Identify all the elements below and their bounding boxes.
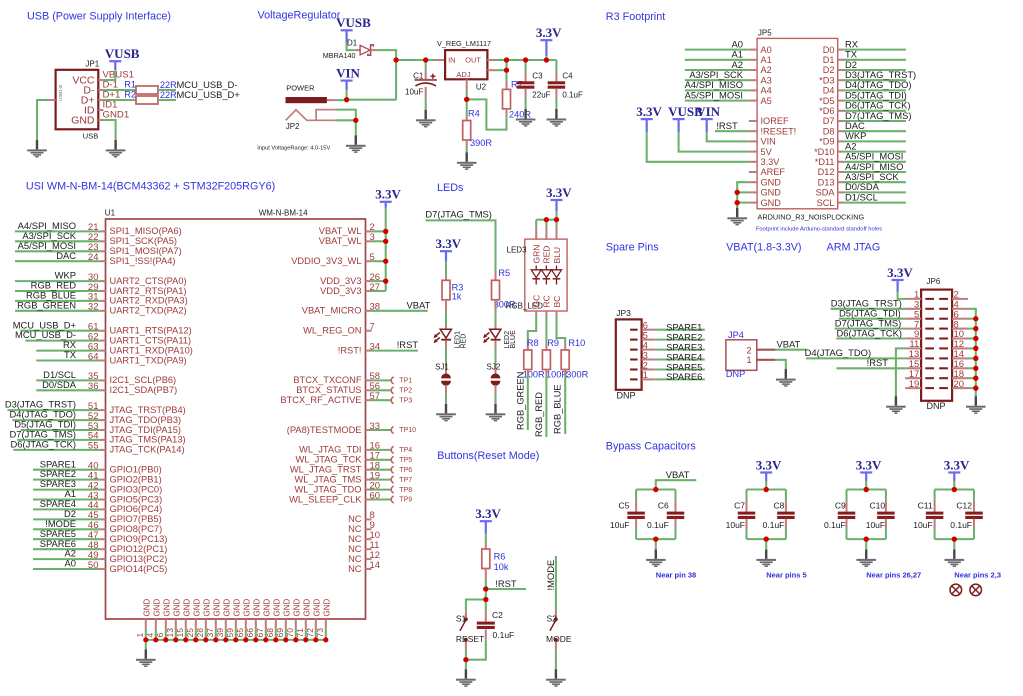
svg-text:A1: A1 bbox=[761, 55, 772, 65]
svg-text:73: 73 bbox=[315, 628, 325, 638]
svg-text:WL_JTAG_TCK: WL_JTAG_TCK bbox=[296, 455, 363, 465]
svg-text:GND: GND bbox=[242, 599, 251, 617]
wire bus to ground bbox=[145, 640, 147, 649]
wire rail to U2 IN bbox=[426, 59, 445, 61]
svg-text:TP5: TP5 bbox=[399, 457, 412, 464]
U1 pin 63 UART1_RXD(PA10) net RX bbox=[36, 339, 193, 355]
JP6 right ground rail bbox=[968, 309, 976, 396]
section title VoltageRegulator bbox=[258, 9, 341, 21]
capacitor C7 bbox=[726, 490, 756, 540]
value 300R of R10 bbox=[566, 370, 588, 380]
junction dots overlay bbox=[143, 57, 978, 662]
wire 3.3V to rail C11 bbox=[953, 481, 955, 490]
wire and net label D1/SCL from JP5 bbox=[843, 191, 906, 202]
svg-text:10uF: 10uF bbox=[405, 88, 423, 97]
U1 pin 5 VDDIO_3V3_WL bbox=[291, 252, 388, 266]
note input voltage range bbox=[257, 146, 330, 152]
value 240R bbox=[509, 110, 531, 120]
section title USI module bbox=[26, 181, 275, 193]
connector JP3 bbox=[616, 308, 642, 401]
U1 pin 34 !RST! bbox=[338, 339, 419, 355]
svg-text:ARM JTAG: ARM JTAG bbox=[827, 242, 881, 254]
svg-text:28: 28 bbox=[195, 628, 205, 638]
svg-text:C2: C2 bbox=[492, 610, 503, 620]
wire and net label A2 to JP5 bbox=[685, 59, 749, 70]
wire 3.3V to JP6 pin1 bbox=[898, 292, 906, 299]
wire 3.3V to R3 bbox=[445, 262, 447, 281]
svg-text:BC: BC bbox=[552, 296, 562, 308]
U1 pin 40 GPIO1(PB0) net SPARE1 bbox=[33, 458, 162, 474]
svg-text:UART1_TXD(PA9): UART1_TXD(PA9) bbox=[110, 355, 187, 365]
svg-text:59: 59 bbox=[225, 628, 235, 638]
power flag VUSB bbox=[105, 46, 140, 70]
svg-text:BTCX_STATUS: BTCX_STATUS bbox=[296, 385, 361, 395]
wire LED2 to SJ2 bbox=[494, 340, 496, 374]
svg-text:VIN: VIN bbox=[696, 104, 720, 119]
wire VIN down bbox=[346, 90, 348, 100]
wire VIN to JP5 bbox=[707, 132, 749, 141]
wire and net label SPARE6 bbox=[655, 371, 705, 382]
svg-text:MODE: MODE bbox=[546, 634, 572, 644]
wire U2 OUT2 bbox=[487, 69, 506, 71]
U1 pin 31 UART2_RXD(PA3) net RGB_BLUE bbox=[15, 290, 188, 306]
svg-text:Bypass Capacitors: Bypass Capacitors bbox=[606, 440, 697, 452]
LED3 top pin wires bbox=[536, 220, 556, 239]
svg-text:R5: R5 bbox=[498, 268, 510, 278]
svg-text:D1/SCL: D1/SCL bbox=[845, 191, 878, 202]
wire S2 to ground bbox=[555, 642, 557, 670]
svg-text:!RST: !RST bbox=[495, 578, 517, 589]
wire and net label D6(JTAG_TCK) from JP5 bbox=[843, 100, 910, 111]
JP2 pin stub to VIN rail bbox=[327, 99, 347, 101]
JP3 pins bbox=[630, 321, 655, 382]
svg-text:C12: C12 bbox=[956, 501, 972, 511]
value 22R of R2 bbox=[160, 90, 177, 100]
wire C2 branch bbox=[485, 600, 487, 622]
svg-text:GPIO3(PC0): GPIO3(PC0) bbox=[110, 484, 163, 494]
U1 pin 61 UART1_RTS(PA12) net MCU_USB_D+ bbox=[13, 319, 192, 335]
JP5 right pin names bbox=[814, 45, 835, 208]
svg-text:!RST: !RST bbox=[867, 357, 889, 368]
svg-text:GND: GND bbox=[152, 599, 161, 617]
wire and net label TX from JP5 bbox=[843, 49, 906, 60]
U1 GND pins bbox=[135, 599, 331, 640]
svg-text:R6: R6 bbox=[494, 552, 506, 562]
wire R6 to RST node bbox=[485, 569, 487, 590]
svg-text:DNP: DNP bbox=[927, 401, 946, 411]
svg-text:GPIO14(PC5): GPIO14(PC5) bbox=[110, 564, 168, 574]
svg-text:*D10: *D10 bbox=[814, 147, 834, 157]
svg-text:*D11: *D11 bbox=[815, 157, 835, 167]
svg-text:UART2_CTS(PA0): UART2_CTS(PA0) bbox=[110, 276, 187, 286]
U1 pin 14 NC bbox=[348, 560, 380, 574]
svg-text:TP3: TP3 bbox=[399, 397, 412, 404]
svg-text:GND: GND bbox=[162, 599, 171, 617]
svg-text:WL_JTAG_TDI: WL_JTAG_TDI bbox=[299, 445, 361, 455]
value 22R of R1 bbox=[160, 80, 177, 90]
svg-text:USB (Power Supply Interface): USB (Power Supply Interface) bbox=[27, 11, 171, 23]
svg-text:NC: NC bbox=[348, 534, 362, 544]
svg-text:1: 1 bbox=[135, 633, 145, 638]
svg-text:64: 64 bbox=[88, 351, 99, 362]
U1 pin 23 SPI1_MOSI(PA7) net A5/SPI_MOSI bbox=[15, 240, 182, 256]
wire and net label D4(JTAG_TDO) JP6 bbox=[805, 347, 906, 358]
svg-text:D1: D1 bbox=[823, 55, 835, 65]
wire and net label A5/SPI_MOSI to JP5 bbox=[685, 89, 749, 100]
svg-text:WL_JTAG_TDO: WL_JTAG_TDO bbox=[295, 484, 362, 494]
JP5 left pin names bbox=[761, 45, 797, 208]
wire RST to branch bbox=[485, 589, 487, 600]
svg-text:70: 70 bbox=[285, 628, 295, 638]
U1 pin 49 GPIO13(PC2) net A2 bbox=[33, 548, 167, 564]
svg-text:72: 72 bbox=[305, 628, 315, 638]
wire and net label VBAT JP4 bbox=[775, 339, 806, 350]
svg-text:100R: 100R bbox=[523, 370, 545, 380]
wire and net label A3/SPI_SCK to JP5 bbox=[685, 69, 749, 80]
bypass bottom rail C11 bbox=[935, 538, 974, 540]
svg-text:JTAG_TMS(PA13): JTAG_TMS(PA13) bbox=[110, 435, 186, 445]
svg-text:Spare Pins: Spare Pins bbox=[606, 242, 659, 254]
svg-text:GND1: GND1 bbox=[103, 110, 130, 121]
capacitor C1 bbox=[405, 60, 437, 97]
U1 pin 47 GPIO9(PC13) net SPARE5 bbox=[33, 528, 167, 544]
svg-text:WM-N-BM-14: WM-N-BM-14 bbox=[259, 209, 308, 218]
capacitor C12 bbox=[950, 490, 983, 540]
svg-text:!RST: !RST bbox=[716, 120, 738, 131]
jumper JP2 bbox=[286, 110, 336, 131]
capacitor C8 bbox=[763, 490, 795, 540]
svg-text:D1: D1 bbox=[347, 38, 358, 47]
svg-text:SPI1_SCK(PA5): SPI1_SCK(PA5) bbox=[110, 236, 178, 246]
ground S2 bbox=[546, 669, 566, 687]
wire R7 to ADJ loop bbox=[467, 99, 507, 129]
junction JP5 GND2 bbox=[735, 190, 740, 195]
svg-text:GND: GND bbox=[761, 188, 782, 198]
net label MCU_USB_D+ bbox=[177, 89, 241, 100]
solder jumper SJ1 bbox=[435, 363, 451, 386]
svg-text:VBAT_MICRO: VBAT_MICRO bbox=[302, 306, 362, 316]
wire C2 to gnd node bbox=[466, 630, 486, 660]
svg-text:UART2_TXD(PA2): UART2_TXD(PA2) bbox=[110, 306, 187, 316]
wire JP1 D+ to R2 bbox=[103, 99, 136, 101]
value 390R bbox=[470, 138, 492, 148]
svg-text:14: 14 bbox=[370, 560, 381, 571]
JP1 pin label D-1 bbox=[103, 80, 118, 91]
svg-text:VIN: VIN bbox=[336, 65, 360, 80]
U1 pin 56 BTCX_STATUS bbox=[296, 381, 412, 395]
svg-text:SJ2: SJ2 bbox=[487, 363, 501, 372]
svg-text:DAC: DAC bbox=[56, 250, 76, 261]
svg-text:VIN: VIN bbox=[761, 137, 776, 147]
svg-text:NC: NC bbox=[348, 544, 362, 554]
svg-text:C4: C4 bbox=[562, 71, 573, 80]
wire 3.3V to JP5 bbox=[647, 132, 749, 162]
U1 pin 18 WL_JTAG_TRST bbox=[290, 461, 412, 475]
junction at C1 bbox=[423, 57, 428, 62]
ground bypass C7 bbox=[756, 549, 776, 567]
wire and net label DAC from JP5 bbox=[843, 120, 906, 131]
svg-text:24: 24 bbox=[88, 252, 99, 263]
U1 pin 9 NC bbox=[348, 520, 375, 534]
svg-text:10uF: 10uF bbox=[866, 520, 885, 530]
bypass top rail C11 bbox=[935, 488, 974, 490]
JP6 right ground taps bbox=[968, 316, 978, 391]
svg-text:JP5: JP5 bbox=[758, 29, 772, 38]
svg-text:GND: GND bbox=[322, 599, 331, 617]
junction top C9 bbox=[864, 487, 869, 492]
svg-text:GPIO7(PB5): GPIO7(PB5) bbox=[110, 514, 162, 524]
svg-text:GND: GND bbox=[272, 599, 281, 617]
svg-text:A0: A0 bbox=[761, 45, 772, 55]
JP5 note bbox=[756, 226, 882, 232]
wire 3.3V to rail C7 bbox=[765, 481, 767, 490]
svg-text:VUSB: VUSB bbox=[105, 46, 140, 61]
svg-text:37: 37 bbox=[205, 628, 215, 638]
net label !RST to JP5 bbox=[715, 120, 749, 131]
wire and net label D6(JTAG_TCK) JP6 bbox=[836, 327, 905, 338]
wire JP6 pin11 to ground bbox=[896, 348, 905, 396]
wire C4 to ground bbox=[555, 88, 557, 109]
svg-text:GPIO13(PC2): GPIO13(PC2) bbox=[110, 554, 168, 564]
connector POWER JP2 bar bbox=[286, 83, 327, 103]
svg-text:SPI1_MOSI(PA7): SPI1_MOSI(PA7) bbox=[110, 246, 182, 256]
svg-text:JP1: JP1 bbox=[85, 60, 99, 69]
svg-text:32: 32 bbox=[88, 302, 99, 313]
svg-text:NC: NC bbox=[348, 524, 362, 534]
svg-text:UART1_RXD(PA10): UART1_RXD(PA10) bbox=[110, 345, 193, 355]
wire R3 to LED1 bbox=[445, 300, 447, 330]
capacitor C10 bbox=[866, 490, 895, 540]
junction JP2 gnd bbox=[353, 118, 358, 123]
svg-text:GND: GND bbox=[212, 599, 221, 617]
svg-text:65: 65 bbox=[235, 628, 245, 638]
ground C3 bbox=[516, 109, 536, 127]
wire D1 cathode to rail bbox=[370, 50, 396, 100]
junction 3V3 rail bbox=[544, 57, 549, 62]
wire LED1 to SJ1 bbox=[445, 340, 447, 374]
resistor R7 bbox=[503, 79, 523, 109]
value 100R of R9 bbox=[546, 370, 568, 380]
wire LED3 RC to R9 bbox=[545, 311, 547, 350]
svg-text:50: 50 bbox=[88, 560, 99, 571]
wire LED3 top rail bbox=[536, 219, 556, 221]
section title ARM JTAG bbox=[827, 242, 881, 254]
svg-text:22uF: 22uF bbox=[532, 90, 550, 99]
svg-text:C11: C11 bbox=[918, 501, 933, 511]
connector JP6 bbox=[921, 277, 952, 411]
ic U1 outline bbox=[105, 209, 366, 620]
wire JP1 GND1 to ground bbox=[103, 120, 115, 140]
svg-text:GPIO8(PC7): GPIO8(PC7) bbox=[110, 524, 163, 534]
U1 pin 43 GPIO5(PC3) net A1 bbox=[33, 488, 162, 504]
svg-text:D4: D4 bbox=[823, 86, 835, 96]
svg-text:BTCX_RF_ACTIVE: BTCX_RF_ACTIVE bbox=[280, 395, 361, 405]
resistor R4 bbox=[463, 108, 480, 140]
JP1 pin names bbox=[71, 74, 95, 126]
wire and net label A1 to JP5 bbox=[685, 49, 749, 60]
svg-text:LEDs: LEDs bbox=[437, 182, 464, 194]
power flag 3.3V U1 bbox=[375, 187, 401, 208]
wire SJ2 to ground bbox=[494, 385, 496, 404]
svg-text:TP4: TP4 bbox=[399, 447, 412, 454]
svg-text:D6(JTAG_TCK): D6(JTAG_TCK) bbox=[837, 327, 902, 338]
svg-text:TP7: TP7 bbox=[399, 477, 412, 484]
junction bottom C5 bbox=[653, 537, 658, 542]
section title R3 Footprint bbox=[606, 11, 665, 23]
JP4 pin1 stub bbox=[757, 359, 776, 361]
svg-text:JTAG_TDI(PA15): JTAG_TDI(PA15) bbox=[110, 425, 181, 435]
svg-text:UART2_RTS(PA1): UART2_RTS(PA1) bbox=[110, 286, 187, 296]
U1 pin 52 JTAG_TDO(PB3) net D4(JTAG_TDO) bbox=[10, 409, 182, 425]
svg-text:C9: C9 bbox=[835, 501, 846, 511]
svg-text:USB1-B: USB1-B bbox=[58, 85, 63, 101]
capacitor C5 bbox=[610, 490, 645, 540]
section title Buttons bbox=[437, 450, 539, 462]
svg-text:(PA8)TESTMODE: (PA8)TESTMODE bbox=[287, 425, 362, 435]
svg-text:0.1uF: 0.1uF bbox=[493, 630, 515, 640]
wire VUSB to JP1 VCC bbox=[103, 70, 115, 80]
LED3 inside labels bbox=[532, 245, 562, 308]
svg-text:SDA: SDA bbox=[816, 188, 836, 198]
wire rail corner to C4 bbox=[555, 60, 557, 81]
net label D7(JTAG_TMS) to R5 bbox=[425, 209, 495, 271]
svg-text:ADJ: ADJ bbox=[456, 70, 470, 79]
svg-text:MBRA140: MBRA140 bbox=[323, 51, 356, 60]
rgb led LED3 outline bbox=[506, 239, 567, 311]
JP1 pin label ID1 bbox=[103, 100, 118, 111]
U1 pin 19 WL_JTAG_TMS bbox=[295, 470, 413, 484]
junction C3 rail bbox=[523, 57, 528, 62]
ground JP6 right bbox=[966, 396, 986, 414]
svg-text:MCU_USB_D+: MCU_USB_D+ bbox=[177, 89, 241, 100]
ground SJ1 bbox=[436, 404, 456, 422]
junction top C5 bbox=[653, 487, 658, 492]
wire 3.3V to LED3 rail bbox=[555, 211, 557, 220]
svg-text:C5: C5 bbox=[619, 501, 630, 511]
wire R1 to MCU_USB_D- bbox=[158, 89, 176, 91]
junction RST node bbox=[483, 586, 488, 591]
U1 pin 12 NC bbox=[348, 550, 380, 564]
svg-text:3.3V: 3.3V bbox=[856, 457, 882, 472]
svg-text:300R: 300R bbox=[566, 370, 588, 380]
wire and net label SPARE4 bbox=[655, 351, 705, 362]
junction bottom C11 bbox=[952, 537, 957, 542]
svg-text:UART1_CTS(PA11): UART1_CTS(PA11) bbox=[110, 335, 192, 345]
svg-text:D12: D12 bbox=[818, 167, 835, 177]
U1 pin 21 SPI1_MISO(PA6) net A4/SPI_MISO bbox=[15, 220, 182, 236]
U1 pin 10 NC bbox=[348, 530, 380, 544]
U1 ground bus bbox=[146, 639, 326, 641]
wire and net label A2 from JP5 bbox=[843, 140, 906, 151]
resistor R1 bbox=[124, 80, 158, 95]
svg-text:C3: C3 bbox=[532, 71, 543, 80]
wire and net label SPARE1 bbox=[655, 322, 705, 333]
svg-text:4: 4 bbox=[145, 633, 155, 638]
switch S1 bbox=[456, 614, 484, 645]
junction S1 gnd node bbox=[463, 657, 468, 662]
svg-text:JP6: JP6 bbox=[927, 277, 941, 286]
svg-text:BLUE: BLUE bbox=[510, 330, 517, 349]
svg-text:GC: GC bbox=[532, 295, 542, 308]
power flag VIN bbox=[336, 65, 360, 90]
svg-text:VBAT: VBAT bbox=[777, 339, 801, 350]
svg-text:GND: GND bbox=[172, 599, 181, 617]
svg-text:390R: 390R bbox=[470, 138, 492, 148]
resistor R8 bbox=[524, 338, 539, 370]
svg-text:OUT: OUT bbox=[465, 56, 481, 65]
junction top C11 bbox=[952, 487, 957, 492]
svg-text:3.3V: 3.3V bbox=[475, 506, 501, 521]
svg-text:A4: A4 bbox=[761, 86, 772, 96]
svg-text:GND: GND bbox=[71, 114, 95, 126]
svg-text:!RESET!: !RESET! bbox=[761, 126, 797, 136]
svg-text:I2C1_SDA(PB7): I2C1_SDA(PB7) bbox=[110, 385, 178, 395]
svg-text:TX: TX bbox=[64, 349, 77, 360]
power flag 3.3V bypass C11 bbox=[944, 457, 970, 481]
svg-text:Near pins 5: Near pins 5 bbox=[766, 571, 806, 580]
svg-text:3.3V: 3.3V bbox=[944, 457, 970, 472]
ground C1 bbox=[416, 110, 436, 128]
mounting holes bbox=[950, 584, 982, 596]
ground under JP1 GND bbox=[106, 140, 126, 158]
switch S2 bbox=[546, 614, 572, 645]
U1 pin 38 VBAT_MICRO bbox=[302, 299, 431, 315]
ground JP6 left bbox=[886, 396, 906, 414]
svg-text:C6: C6 bbox=[658, 501, 669, 511]
svg-text:NC: NC bbox=[348, 564, 362, 574]
svg-text:JTAG_TRST(PB4): JTAG_TRST(PB4) bbox=[110, 405, 186, 415]
svg-text:A5/SPI_MOSI: A5/SPI_MOSI bbox=[685, 89, 743, 100]
wire U2 OUT to rail bbox=[487, 59, 556, 61]
JP1 pin label VBUS1 bbox=[103, 70, 134, 81]
svg-text:20: 20 bbox=[954, 379, 965, 390]
svg-text:*D3: *D3 bbox=[819, 75, 834, 85]
svg-text:69: 69 bbox=[275, 628, 285, 638]
junction ADJ bbox=[464, 97, 469, 102]
section title VBAT bbox=[726, 242, 801, 254]
wire bottom to ground C7 bbox=[765, 539, 767, 549]
resistor R10 bbox=[561, 338, 585, 370]
note Near pins 26,27 bbox=[866, 571, 921, 580]
svg-text:15: 15 bbox=[175, 628, 185, 638]
svg-text:GND: GND bbox=[302, 599, 311, 617]
wire and net label SPARE3 bbox=[655, 341, 705, 352]
wire gnd node down bbox=[465, 660, 467, 670]
U1 pin 58 BTCX_TXCONF bbox=[293, 371, 412, 385]
power flag VIN JP5 bbox=[696, 104, 720, 132]
svg-text:66: 66 bbox=[245, 628, 255, 638]
ground JP4 bbox=[776, 369, 796, 387]
svg-text:R8: R8 bbox=[527, 338, 539, 348]
wire 3.3V flag to rail bbox=[545, 56, 547, 60]
U1 pin 20 WL_JTAG_TDO bbox=[295, 480, 413, 494]
svg-text:SPI1_MISO(PA6): SPI1_MISO(PA6) bbox=[110, 226, 182, 236]
bypass top rail C7 bbox=[747, 488, 786, 490]
junction VIN rail bbox=[344, 97, 349, 102]
svg-text:GRN: GRN bbox=[532, 245, 542, 264]
svg-text:VDD_3V3: VDD_3V3 bbox=[320, 276, 361, 286]
wire LED3 GC to R8 bbox=[528, 311, 536, 350]
svg-text:C7: C7 bbox=[734, 501, 745, 511]
svg-text:3.3V: 3.3V bbox=[756, 457, 782, 472]
svg-text:VBAT: VBAT bbox=[407, 299, 431, 310]
svg-text:!RST: !RST bbox=[397, 339, 419, 350]
wire and net label A4/SPI_MISO from JP5 bbox=[843, 161, 906, 172]
wire !MODE to S2 bbox=[555, 556, 557, 617]
svg-text:3.3V: 3.3V bbox=[436, 236, 462, 251]
U1 pin 48 GPIO12(PC1) net SPARE6 bbox=[33, 538, 167, 554]
ground bypass C9 bbox=[856, 549, 876, 567]
